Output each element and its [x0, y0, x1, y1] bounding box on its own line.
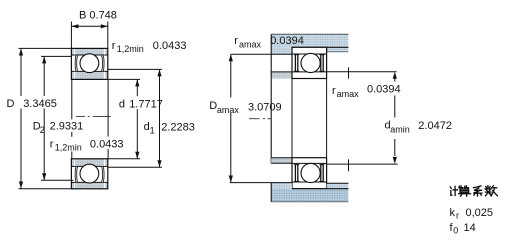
gap silhouette lines right view — [292, 79, 327, 158]
bearing L top section: outer ring band — [71, 48, 107, 55]
bearing R bottom section: left seal — [294, 165, 299, 182]
svg-text:k: k — [450, 207, 456, 219]
bearing L top section: seal recess slits — [75, 49, 105, 79]
svg-text:1,2min: 1,2min — [55, 143, 82, 153]
bearing L bottom section: outline box — [71, 159, 107, 189]
label r1,2min 0.0433 top — [112, 40, 187, 54]
B dimension line — [71, 24, 107, 28]
bearing L bottom section: ball — [80, 164, 99, 183]
centerline left view — [76, 115, 111, 117]
svg-text:r: r — [332, 85, 336, 97]
bore silhouette right edge — [107, 79, 109, 158]
d dimension extension top — [108, 78, 140, 80]
housing bottom block — [271, 183, 348, 202]
label Damax 3.0709 — [209, 100, 281, 115]
svg-text:amax: amax — [217, 105, 240, 115]
bearing L bottom section: inner ring band — [71, 159, 107, 167]
label damin 2.0472 — [385, 120, 452, 135]
bearing R top section: box — [292, 47, 327, 78]
d1 dimension extension bottom — [108, 166, 162, 168]
svg-text:0: 0 — [453, 225, 458, 235]
label f0 14 — [450, 222, 476, 236]
label B 0.748 — [79, 9, 117, 21]
label ramax 0.0394 right — [332, 84, 401, 100]
svg-text:3.0709: 3.0709 — [248, 102, 282, 114]
bearing L top section: right seal — [101, 55, 104, 71]
bearing R top section: ball — [301, 53, 320, 72]
bearing L bottom section: seal recess slits — [75, 159, 105, 188]
shaft shoulder bottom — [271, 158, 292, 164]
bearing L top section: inner ring band — [71, 71, 107, 79]
D2 dimension line — [42, 56, 46, 180]
svg-text:3.3465: 3.3465 — [23, 98, 57, 110]
label D 3.3465 — [7, 98, 57, 110]
svg-text:2: 2 — [40, 125, 45, 135]
housing shoulder line / ra extension top-left (Da level) — [231, 53, 292, 55]
svg-text:d: d — [119, 98, 125, 110]
d1 dimension line — [157, 69, 161, 167]
left edge line of housing+shaft (top) — [270, 34, 272, 163]
bearing L bottom section: right seal — [101, 167, 104, 183]
svg-text:1.7717: 1.7717 — [129, 98, 163, 110]
svg-text:amin: amin — [390, 124, 410, 134]
svg-text:r: r — [112, 40, 116, 52]
svg-text:amax: amax — [239, 39, 262, 49]
svg-text:14: 14 — [464, 222, 476, 234]
svg-text:D: D — [7, 98, 15, 110]
shaft shoulder top — [271, 72, 292, 79]
da extension right (da level bottom) — [327, 163, 398, 165]
svg-text:0.0433: 0.0433 — [153, 40, 187, 52]
label ramax 0.0394 top-left — [234, 35, 304, 49]
bore silhouette left edge — [71, 79, 73, 158]
svg-text:B 0.748: B 0.748 — [79, 9, 117, 21]
svg-text:r: r — [456, 210, 459, 220]
centerline right view — [249, 118, 271, 120]
svg-text:0,025: 0,025 — [466, 207, 494, 219]
d1 dimension extension top — [108, 68, 162, 70]
label r1,2min 0.0433 bottom — [48, 137, 127, 153]
bearing L top section: ball — [80, 54, 99, 73]
d dimension line — [135, 79, 139, 158]
svg-text:amax: amax — [337, 89, 360, 99]
D2 dimension extension top — [41, 55, 71, 57]
bearing L top section: left seal — [75, 55, 78, 71]
label d 1.7717 — [118, 96, 163, 110]
svg-text:r: r — [234, 35, 238, 47]
housing top block — [271, 34, 348, 54]
bearing R top section: left seal — [294, 55, 299, 72]
label kr 0,025 — [450, 207, 494, 221]
svg-text:2.9331: 2.9331 — [50, 121, 84, 133]
D dimension extension top — [19, 47, 72, 49]
D dimension extension bottom — [19, 188, 74, 190]
svg-text:0.0394: 0.0394 — [367, 84, 401, 96]
label d1 2.2283 — [144, 121, 195, 135]
Da dimension line — [229, 54, 233, 182]
svg-text:1: 1 — [150, 125, 155, 135]
bearing L bottom section: left seal — [75, 167, 78, 183]
B dimension extension lines — [71, 22, 107, 49]
bearing R bottom section: right seal — [319, 165, 324, 182]
label D2 2.9331 — [33, 119, 85, 135]
svg-text:0.0394: 0.0394 — [270, 35, 304, 47]
ra corner tick top right — [348, 67, 350, 78]
bearing L bottom section: raceway lines — [71, 166, 107, 182]
D2 dimension extension bottom — [41, 179, 74, 181]
label 计算系数 (calculation factors, drawn strokes) — [450, 186, 497, 197]
bearing R bottom section: raceway lines — [292, 163, 327, 182]
bearing L bottom section: outer ring band — [71, 182, 107, 188]
d dimension extension bottom — [108, 158, 140, 160]
D dimension line — [19, 49, 23, 189]
Da extension bottom — [230, 182, 272, 184]
bearing R top section: right seal — [319, 55, 324, 72]
bearing R bottom section: box — [292, 158, 327, 189]
da dimension line with arrows — [393, 72, 397, 164]
svg-text:r: r — [50, 138, 54, 150]
svg-text:0.0433: 0.0433 — [90, 138, 124, 150]
ra extension right (da level top) — [327, 71, 397, 73]
bearing L top section: outline box — [71, 48, 107, 79]
bearing L top section: raceway lines — [71, 55, 107, 71]
bearing R top section: raceway lines — [292, 54, 327, 72]
ra corner tick bottom right — [348, 159, 350, 171]
bearing R bottom section: ball — [301, 163, 320, 182]
svg-text:2.2283: 2.2283 — [161, 121, 195, 133]
svg-text:1,2min: 1,2min — [117, 44, 144, 54]
svg-text:2.0472: 2.0472 — [418, 120, 452, 132]
